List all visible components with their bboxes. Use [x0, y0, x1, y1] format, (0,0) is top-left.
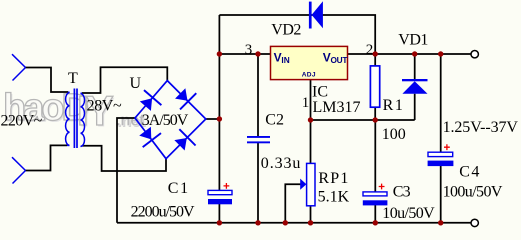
- svg-text:3A/50V: 3A/50V: [142, 112, 189, 129]
- wire C4 top lead: [440, 54, 442, 152]
- output terminal minus: [471, 219, 478, 226]
- svg-text:LM317: LM317: [313, 99, 361, 116]
- wire RP1 bottom lead: [310, 206, 312, 223]
- secondary winding: [81, 93, 85, 147]
- wire C2 to ground: [257, 143, 259, 223]
- svg-text:R1: R1: [383, 97, 405, 114]
- junction node wiper ground: [283, 220, 288, 225]
- svg-text:1: 1: [302, 95, 310, 111]
- junction node C3 ground: [373, 220, 378, 225]
- bridge diode top-right: [172, 85, 196, 109]
- wire pin2 output rail: [348, 53, 471, 55]
- wire VD1 bottom lead: [414, 94, 416, 120]
- svg-text:VD1: VD1: [398, 32, 428, 49]
- svg-text:C2: C2: [265, 112, 284, 129]
- diode VD1: [402, 79, 428, 94]
- wire RP1 wiper to ground: [285, 184, 302, 223]
- transformer T: [66, 89, 85, 149]
- wire primary top lead: [26, 68, 69, 93]
- primary winding: [66, 92, 70, 146]
- capacitor C4: [428, 152, 454, 166]
- junction node C1 ground: [217, 220, 222, 225]
- wire secondary top to bridge top corner: [82, 67, 167, 93]
- IC U1 LM317 regulator body: [271, 46, 348, 79]
- bridge diode top-left: [137, 90, 162, 114]
- capacitor C1: [208, 190, 232, 204]
- svg-text:U: U: [130, 75, 142, 92]
- wire pin3 input rail: [219, 53, 270, 55]
- junction node C2 top: [255, 51, 260, 56]
- potentiometer RP1 body: [307, 163, 315, 205]
- wire bridge left corner to ground rail: [117, 118, 135, 223]
- svg-text:C1: C1: [168, 180, 190, 197]
- svg-text:2200u/50V: 2200u/50V: [131, 204, 195, 221]
- wire top loop with VD2: [219, 15, 375, 54]
- input terminal bottom: [12, 157, 26, 183]
- wire main left rail below C1: [218, 204, 220, 223]
- wire ADJ horizontal node A: [311, 119, 415, 121]
- diode VD2: [309, 1, 323, 28]
- svg-text:28V~: 28V~: [87, 98, 122, 115]
- svg-text:ADJ: ADJ: [302, 72, 316, 79]
- capacitor C3: [363, 192, 388, 206]
- wire VD1 top lead: [414, 54, 416, 79]
- svg-text:10u/50V: 10u/50V: [382, 205, 435, 222]
- wire main left rail top section: [218, 15, 220, 191]
- resistor R1: [370, 66, 379, 107]
- watermark haoDIY.net: [3, 87, 147, 136]
- svg-text:100: 100: [382, 126, 406, 143]
- junction node R1 bottom: [373, 117, 378, 122]
- svg-text:100u/50V: 100u/50V: [443, 184, 503, 201]
- svg-text:C4: C4: [459, 164, 480, 181]
- wire C3 bottom lead: [374, 205, 376, 223]
- junction node VD1 top: [412, 51, 417, 56]
- junction node C4 top: [438, 51, 443, 56]
- svg-text:3: 3: [245, 42, 253, 58]
- C3 polarity plus: [379, 184, 385, 190]
- wire secondary bottom to bridge bottom corner: [82, 146, 166, 171]
- C1 polarity plus: [224, 183, 230, 189]
- output terminal plus: [471, 51, 478, 58]
- wire ground bottom rail: [117, 222, 471, 224]
- svg-text:RP1: RP1: [318, 170, 349, 187]
- bridge diode bottom-right: [171, 129, 195, 153]
- bridge diode bottom-left: [136, 124, 161, 147]
- wire R1 bottom lead: [374, 107, 376, 120]
- svg-text:2: 2: [366, 42, 374, 58]
- junction node bridge output: [217, 116, 222, 121]
- junction node RP1 ground: [308, 220, 313, 225]
- wire primary bottom lead: [26, 145, 68, 170]
- junction node ADJ: [308, 117, 313, 122]
- junction node pin3 rail at left rail: [217, 51, 222, 56]
- capacitor C2: [247, 136, 270, 143]
- input terminal top: [12, 54, 26, 80]
- wire C4 bottom lead: [440, 166, 442, 223]
- wire C3 top lead: [374, 120, 376, 192]
- wire R1 top lead: [374, 54, 376, 66]
- junction node C4 ground: [438, 220, 443, 225]
- junction node C2 ground: [255, 220, 260, 225]
- wire RP1 top lead: [310, 120, 312, 164]
- core: [74, 89, 77, 149]
- wire C2 branch: [257, 54, 259, 136]
- C4 polarity plus: [444, 144, 450, 150]
- svg-text:T: T: [68, 70, 78, 87]
- svg-text:5.1K: 5.1K: [318, 189, 350, 206]
- potentiometer RP1 wiper arrow: [300, 179, 306, 190]
- bridge rectifier U: [135, 81, 206, 159]
- junction node pin2: [373, 51, 378, 56]
- svg-text:1.25V--37V: 1.25V--37V: [443, 119, 519, 136]
- svg-text:0.33u: 0.33u: [261, 155, 302, 172]
- svg-text:VD2: VD2: [271, 22, 301, 39]
- svg-text:220V~: 220V~: [1, 113, 43, 130]
- svg-text:C3: C3: [393, 184, 411, 201]
- wire ADJ pin lead: [310, 80, 312, 120]
- wire bridge right corner stub: [206, 118, 220, 120]
